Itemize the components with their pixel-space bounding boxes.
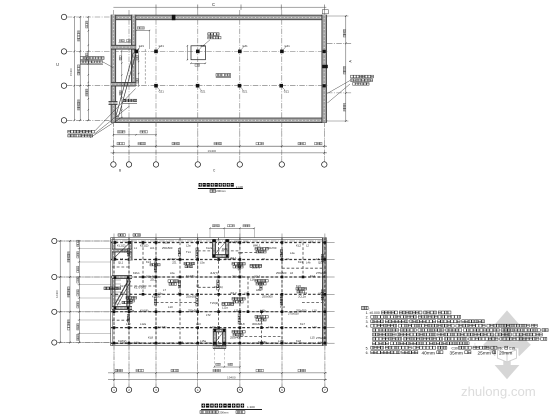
svg-text:L15b: L15b [278,339,284,343]
bottom plan title [202,404,245,408]
svg-text:,: , [462,351,463,355]
stair level note [122,301,132,303]
svg-text:L14a: L14a [134,340,140,344]
svg-text:L2a: L2a [186,244,191,248]
svg-text:L11b: L11b [260,309,266,313]
svg-text:L1(1): L1(1) [163,240,170,244]
svg-text:C: C [55,63,60,66]
svg-text:KL2: KL2 [296,243,301,247]
svg-text:300x700: 300x700 [266,246,277,250]
room top-middle (elevator) [212,240,215,258]
svg-text:KL5: KL5 [296,284,301,288]
svg-text:L9b: L9b [244,291,249,295]
svg-text:KL1(2): KL1(2) [140,243,148,247]
columns at intersections [113,241,116,244]
svg-text:JZ1: JZ1 [172,260,177,264]
bottom chain [108,372,327,374]
slab level note [216,74,231,77]
svg-text:KL7: KL7 [120,284,125,288]
svg-text:GZ1: GZ1 [139,44,145,48]
svg-text:QL2: QL2 [318,260,324,264]
watermark cube [498,346,517,362]
svg-text:L12a: L12a [140,322,146,326]
svg-text:L1: L1 [134,246,137,250]
svg-text:L2: L2 [310,240,314,244]
svg-text:;: ; [511,351,512,355]
svg-text:275x520: 275x520 [316,336,327,340]
svg-text:L6: L6 [290,271,294,275]
bottom total 19400 [108,379,327,381]
svg-text:KL6(6): KL6(6) [140,308,148,312]
bottom extension lines [112,123,114,162]
svg-text:L7: L7 [163,288,167,292]
wall pilasters [172,15,176,20]
svg-text:KL8: KL8 [296,339,301,343]
bottom grid bubbles [111,162,116,167]
svg-text:GZ1: GZ1 [159,90,165,94]
svg-text:250x550: 250x550 [186,295,197,299]
svg-text:L15a: L15a [200,339,206,343]
bottom-left annotation + leaders [68,130,95,133]
svg-text:,: , [490,351,491,355]
right wall band [322,238,326,346]
svg-text:GZ1: GZ1 [242,90,248,94]
svg-text:250x500: 250x500 [232,274,243,278]
svg-text:KL2a: KL2a [206,246,213,250]
svg-text:GZ1: GZ1 [159,44,165,48]
svg-text:250x500: 250x500 [162,246,173,250]
small wall stub row B left [109,102,118,105]
svg-text:250x400: 250x400 [230,336,241,340]
svg-text:L10a: L10a [128,309,134,313]
left dimension chains [73,17,75,120]
notes block [362,306,369,309]
svg-text:1:100: 1:100 [247,405,255,409]
svg-text:L11: L11 [234,308,239,312]
svg-text:200mm: 200mm [219,411,229,415]
svg-text:200mm: 200mm [216,189,226,193]
svg-text:JCL2: JCL2 [230,291,237,295]
room top-left [112,241,115,261]
svg-text:LT2: LT2 [206,313,211,317]
svg-text:L6a: L6a [170,271,175,275]
grid column lines [112,10,114,162]
bottom bubbles [111,387,116,392]
svg-text:L5: L5 [262,257,266,261]
svg-text:L15: L15 [310,336,315,340]
svg-text:L14: L14 [318,340,323,344]
svg-text:L9a: L9a [158,291,163,295]
svg-text:KL6: KL6 [280,305,285,309]
two-line label stacks [255,248,268,250]
svg-text:KL4: KL4 [310,274,315,278]
svg-text:L4: L4 [316,257,320,261]
svg-text:GZ1: GZ1 [242,44,248,48]
grid row lines [67,16,328,18]
svg-text:L9: L9 [178,291,182,295]
svg-text:JCL2a: JCL2a [298,295,306,299]
svg-text:L3a: L3a [244,240,249,244]
horizontal beams [111,242,327,244]
interior stair walls [131,15,135,86]
stair flight diagonals [116,53,133,117]
svg-text:,: , [434,351,435,355]
svg-text:2.: 2. [366,316,369,320]
svg-text:KL8: KL8 [148,336,153,340]
svg-text:GZ1: GZ1 [200,90,206,94]
left grid bubbles [61,14,66,19]
svg-text:L10: L10 [312,308,317,312]
top-right detail box [322,10,328,14]
svg-text:JL8: JL8 [240,322,245,326]
roof opening 700x700 [191,46,205,60]
svg-text:3.: 3. [366,320,369,324]
svg-text:B: B [119,169,121,173]
right reference stubs [327,42,353,44]
slab boundary [111,238,327,346]
left annotation block [80,57,104,60]
svg-text:;: ; [475,342,476,346]
room bottom-middle [213,329,216,349]
bottom extension lines [113,346,115,387]
svg-text:C15: C15 [509,346,515,350]
svg-text:300x600: 300x600 [252,322,263,326]
svg-text:L2: L2 [306,244,309,248]
svg-text:QL1: QL1 [118,260,124,264]
svg-text:12400: 12400 [55,290,59,298]
svg-text:250x550: 250x550 [296,309,307,313]
svg-text:250x500: 250x500 [188,309,199,313]
svg-text:KL7(-0.5): KL7(-0.5) [134,285,146,289]
right annotation [351,75,374,78]
svg-text:300x600: 300x600 [146,274,157,278]
svg-text:19400: 19400 [227,376,236,380]
outer walls [111,15,326,20]
svg-text:KL2(6): KL2(6) [230,240,238,244]
bottom main chain [111,145,328,147]
svg-text:KL7(6): KL7(6) [158,325,166,329]
svg-text:TL2: TL2 [238,251,243,255]
svg-text:L10: L10 [168,305,173,309]
stair interior dim line x=121.8 [121,50,123,118]
svg-text:KL3(2): KL3(2) [168,257,176,261]
right dimension chain [345,16,347,121]
svg-text:TL1: TL1 [186,250,191,254]
svg-text:TL3: TL3 [122,250,127,254]
svg-text:KZL1: KZL1 [133,271,140,275]
svg-text:JL6(7): JL6(7) [210,271,218,275]
stair interior dim line A [138,49,140,86]
stair top small dim [136,30,150,32]
svg-text:L5: L5 [286,257,289,261]
svg-text:KL8(2): KL8(2) [118,339,126,343]
svg-text:6.: 6. [366,351,369,355]
bottom small dims [214,366,240,368]
small dims near stair mid [120,40,125,42]
grid row lines [57,240,328,242]
svg-text:C30: C30 [452,346,458,350]
svg-text:L9: L9 [318,291,321,295]
svg-text:5.: 5. [366,346,369,350]
svg-text:L5a: L5a [200,260,205,264]
svg-text:XL4(A): XL4(A) [214,285,223,289]
left bubbles [52,238,57,243]
svg-text:P6;: P6; [498,346,503,350]
stair room left [112,276,115,310]
svg-text:WKL1: WKL1 [253,243,261,247]
svg-text:KL7: KL7 [300,322,305,326]
svg-text:TL5(2): TL5(2) [210,301,218,305]
vertical beams [113,238,115,346]
svg-text:KL4(6): KL4(6) [186,274,194,278]
right stubs [326,242,334,244]
svg-text:L13: L13 [268,325,273,329]
svg-text:L4a: L4a [290,251,295,255]
svg-text:L8: L8 [196,284,200,288]
svg-text:250x500: 250x500 [276,271,287,275]
svg-text:15400: 15400 [69,68,73,76]
opening label [208,33,219,36]
vertical beam labels (rotated) [127,249,129,256]
sub-beams partial [198,250,239,252]
svg-text:zhulong.com: zhulong.com [461,384,536,399]
svg-text:L12: L12 [126,322,131,326]
columns row C with GZ1 labels [134,50,138,54]
svg-text:DZ1: DZ1 [222,247,228,251]
stair interior marks [114,276,117,279]
svg-text:C: C [212,2,215,7]
left dim chains [59,241,61,343]
svg-text:250x450: 250x450 [224,257,235,261]
svg-text:Lb1: Lb1 [150,246,155,250]
columns row B with GZ1 labels [154,84,158,88]
svg-text:250x400: 250x400 [216,343,227,347]
top plan title [199,183,234,187]
stair interior dashed line [144,49,146,84]
svg-text:GZ1: GZ1 [285,44,291,48]
grid col lines [113,234,115,388]
watermark logo zhulong [483,310,531,379]
svg-text:4.: 4. [366,324,369,328]
svg-text:JCL3: JCL3 [254,274,261,278]
svg-text:L11a: L11a [222,305,228,309]
svg-text:L13: L13 [196,322,201,326]
bottom total dim 19400 [111,152,328,154]
svg-text:L13a: L13a [210,325,216,329]
svg-text:L13: L13 [312,325,317,329]
level note near stair bottom [123,99,137,102]
misc level notes [150,264,160,266]
svg-text:KL8(6): KL8(6) [258,340,266,344]
svg-text:1. ±0.000: 1. ±0.000 [366,311,380,315]
svg-text:GZ1: GZ1 [284,90,290,94]
svg-text:KL3: KL3 [298,260,303,264]
top small dims [210,227,254,229]
svg-text:19400: 19400 [208,149,217,153]
svg-text:TZ1: TZ1 [120,291,125,295]
svg-text:L6: L6 [322,274,325,278]
svg-text:250x500: 250x500 [262,294,273,298]
svg-text:KL1(2): KL1(2) [117,243,125,247]
svg-text:L4b: L4b [306,260,311,264]
bottom sub dims [113,134,156,136]
svg-text:L14: L14 [178,340,183,344]
top reference line [113,6,326,8]
